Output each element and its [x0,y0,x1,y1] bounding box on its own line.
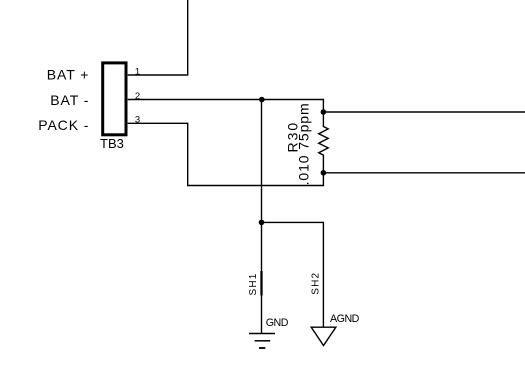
junction node shunt/ground [259,220,265,226]
svg-text:1: 1 [135,66,140,77]
svg-text:BAT +: BAT + [47,67,90,83]
wire pin 3 to resistor bottom [128,123,324,185]
junction node resistor top [321,109,327,115]
svg-text:BAT -: BAT - [50,92,89,108]
ground AGND symbol (open triangle) [311,327,336,345]
wire from top edge to pin 1 [128,0,188,75]
wire resistor top to right edge [323,111,525,113]
resistor R30 body [319,112,329,173]
svg-text:SH1: SH1 [248,272,259,295]
svg-text:PACK -: PACK - [38,117,89,133]
wire pin 2 to resistor top [128,100,324,113]
svg-text:GND: GND [266,317,289,329]
wire node BAT- down to GND [261,100,263,334]
svg-text:2: 2 [135,91,140,102]
svg-text:SH2: SH2 [311,272,322,295]
junction node BAT- [259,97,265,103]
wire junction to AGND [262,222,324,327]
ground GND symbol [249,334,275,349]
svg-text:3: 3 [135,115,140,126]
svg-text:AGND: AGND [330,313,360,325]
junction node resistor bottom [321,170,327,176]
wire resistor bottom to right edge [323,172,525,174]
svg-text:.010 75ppm: .010 75ppm [296,102,312,185]
svg-text:TB3: TB3 [100,136,124,151]
connector TB3 body [103,63,126,135]
net stub SH1 (thick segment) [260,271,262,296]
